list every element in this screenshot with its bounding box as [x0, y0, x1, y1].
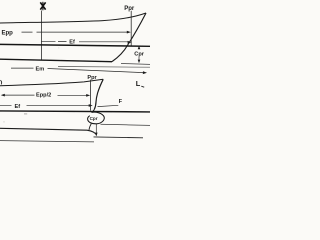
stem above water (bottom) [94, 79, 103, 109]
svg-text:L: L [136, 79, 141, 88]
svg-text:Ef: Ef [15, 104, 21, 110]
bulb axis line [101, 124, 151, 125]
Cpr vertical arrow (bottom) [95, 124, 97, 134]
midship symbol [40, 2, 45, 11]
Cpr dimension arrow [138, 48, 140, 61]
Ppr vertical (bottom) [90, 80, 92, 111]
Ppr fore perpendicular vertical [130, 11, 132, 46]
keel line segment (fore) [94, 136, 144, 139]
bulb-to-keel fairing [89, 124, 91, 130]
scan speck [24, 113, 27, 114]
midship tick (left edge) [0, 80, 1, 84]
svg-text:F: F [119, 99, 123, 105]
stem (bow) line [112, 13, 146, 62]
svg-text:Cpr: Cpr [134, 52, 144, 58]
deck line (bottom diagram) [0, 79, 103, 85]
Ef dimension line [41, 40, 128, 43]
deck sheer line [0, 13, 146, 23]
waterline (bottom diagram) [0, 111, 150, 112]
svg-text:Em: Em [36, 67, 45, 73]
aft vertical line [40, 11, 42, 60]
svg-text:Ppr: Ppr [124, 6, 135, 12]
base line extension [121, 63, 150, 66]
hull bottom line [0, 128, 97, 135]
Em dimension line [11, 67, 34, 69]
keel base line [0, 59, 112, 62]
Epp/2 dimension line [3, 94, 87, 96]
Epp dimension line [22, 31, 129, 33]
svg-text:Epp/2: Epp/2 [36, 92, 51, 98]
auxiliary line [58, 66, 150, 69]
svg-text:Epp: Epp [2, 31, 14, 37]
svg-text:Ppr: Ppr [87, 75, 97, 81]
bulb outline [88, 109, 105, 123]
F leader line [98, 105, 119, 106]
base line aft (bottom diagram) [0, 141, 94, 142]
svg-text:Cpr: Cpr [90, 116, 98, 121]
Ef dimension line (bottom) [0, 104, 90, 106]
waterline [0, 44, 150, 46]
